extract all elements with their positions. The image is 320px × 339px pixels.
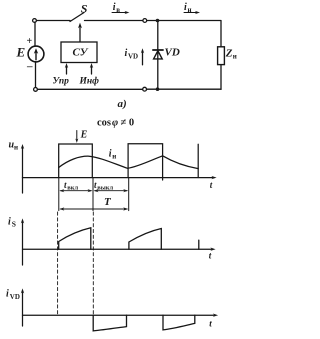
svg-text:н: н bbox=[14, 144, 18, 152]
svg-text:вкл: вкл bbox=[67, 185, 78, 192]
svg-text:S: S bbox=[12, 220, 16, 229]
svg-text:E: E bbox=[16, 45, 26, 60]
svg-text:Упр: Упр bbox=[53, 77, 70, 87]
svg-text:cos: cos bbox=[97, 117, 111, 128]
svg-text:S: S bbox=[81, 2, 88, 16]
svg-text:VD: VD bbox=[165, 47, 180, 59]
svg-text:н: н bbox=[188, 6, 192, 14]
svg-text:Инф: Инф bbox=[79, 76, 100, 87]
svg-text:–: – bbox=[26, 61, 33, 73]
svg-text:VD: VD bbox=[128, 53, 138, 61]
svg-text:Z: Z bbox=[225, 48, 233, 60]
svg-text:≠ 0: ≠ 0 bbox=[121, 117, 135, 128]
svg-text:i: i bbox=[6, 288, 9, 299]
svg-text:φ: φ bbox=[112, 117, 118, 128]
svg-text:в: в bbox=[116, 6, 120, 14]
svg-text:СУ: СУ bbox=[73, 47, 89, 59]
svg-text:+: + bbox=[27, 36, 33, 47]
svg-text:E: E bbox=[80, 129, 88, 140]
svg-text:выкл: выкл bbox=[97, 185, 113, 192]
svg-text:н: н bbox=[112, 153, 116, 161]
svg-text:а): а) bbox=[118, 98, 127, 110]
svg-text:н: н bbox=[233, 53, 237, 61]
svg-text:VD: VD bbox=[10, 293, 20, 301]
svg-text:i: i bbox=[8, 217, 11, 228]
